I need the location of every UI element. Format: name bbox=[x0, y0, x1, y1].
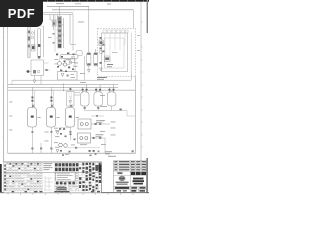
vessel inlet bbox=[26, 71, 31, 73]
package inner frame bbox=[102, 33, 128, 72]
label left bbox=[54, 141, 58, 144]
vessel side lines bbox=[44, 62, 49, 64]
header pipe 3 bbox=[8, 89, 136, 91]
bottom edge ticks bbox=[8, 193, 133, 194]
top link line bbox=[29, 25, 44, 27]
drop line mid bbox=[40, 143, 42, 153]
vessel V2 (tall narrow) bbox=[28, 25, 31, 58]
company row bbox=[114, 174, 147, 176]
frame right inner bbox=[140, 2, 142, 162]
logo bbox=[119, 176, 125, 181]
pipe drop bbox=[40, 75, 42, 84]
top edge notches bbox=[47, 0, 144, 1]
equipment table base bbox=[4, 162, 102, 193]
skid1 pump A bbox=[80, 123, 83, 126]
notes sketch bbox=[44, 176, 53, 190]
tank outlet 1 bbox=[31, 127, 33, 153]
table dark marks bbox=[4, 163, 39, 190]
tank feed drop 3 bbox=[69, 87, 71, 91]
pipe label 2 bbox=[75, 2, 81, 5]
pump P4 bbox=[64, 144, 68, 148]
cluster extra marks bbox=[56, 53, 75, 73]
frame label bbox=[9, 25, 14, 28]
vessel cap narrow bbox=[38, 29, 41, 59]
valve cluster bbox=[32, 45, 36, 52]
PDF badge bbox=[0, 0, 43, 27]
funnel in sump bbox=[61, 74, 64, 77]
sheet right edge (bottom segment) bbox=[146, 158, 148, 193]
header pipe 1 bbox=[8, 84, 118, 86]
lower row marks bbox=[115, 187, 130, 189]
package boundary (dashed) bbox=[98, 28, 136, 76]
tank vessel 3 bbox=[66, 108, 75, 128]
title block left border bbox=[113, 160, 115, 192]
drum D1 bbox=[76, 51, 82, 56]
company row dark cells bbox=[131, 172, 146, 175]
frame right ticks bbox=[141, 22, 142, 147]
pipe drop B bbox=[132, 10, 134, 29]
package side labels bbox=[137, 34, 140, 37]
bottom strip top border bbox=[4, 161, 102, 163]
tick above frame bbox=[107, 3, 111, 6]
instrument bubble bbox=[31, 36, 34, 39]
pump skid 1 box bbox=[78, 119, 91, 129]
skid2 pump B bbox=[85, 137, 88, 140]
tank feed drop 1 bbox=[31, 87, 33, 107]
hx drum H1 bbox=[60, 55, 78, 59]
funnel in F1 bbox=[69, 101, 72, 104]
company text lines bbox=[116, 182, 129, 185]
legend box (white overlay) bbox=[56, 172, 75, 181]
title block lower lines bbox=[114, 185, 147, 187]
tank vessel 1 bbox=[28, 108, 37, 128]
package inner right line bbox=[130, 33, 132, 72]
pipe header B bbox=[52, 9, 133, 11]
revision row marks bbox=[114, 161, 146, 170]
F1 side pipes bbox=[74, 92, 80, 94]
pipe header A bbox=[47, 5, 89, 7]
column side pipe bbox=[63, 18, 65, 48]
package right riser bbox=[134, 76, 136, 153]
pot nozzles bbox=[83, 85, 114, 93]
tank outlet 2 bbox=[50, 127, 52, 153]
bottom header pipe bbox=[8, 152, 136, 154]
funnel B bbox=[56, 150, 59, 153]
pump skid 2 box bbox=[78, 133, 91, 143]
cluster piping bbox=[60, 56, 85, 80]
pipe bbox=[43, 26, 45, 57]
package nested frame bbox=[105, 38, 125, 68]
sump marks bbox=[67, 75, 69, 77]
dark cell block right bbox=[99, 165, 102, 172]
sump box bbox=[58, 72, 78, 81]
skid2 outlet bbox=[91, 138, 106, 153]
pot header to riser bbox=[123, 111, 135, 117]
column side nozzles bbox=[57, 22, 64, 38]
outlet valve marks bbox=[31, 148, 33, 150]
internal drop lines bbox=[105, 33, 125, 55]
tank outlet 3 bbox=[69, 127, 71, 140]
equipment table grid bbox=[4, 162, 102, 193]
drawing title text bbox=[133, 178, 144, 180]
tank vessel 2 bbox=[47, 108, 56, 128]
cluster B line bbox=[68, 147, 101, 149]
drain funnel bbox=[33, 80, 36, 83]
internal unit boxes bbox=[99, 40, 103, 46]
mid top band dark cells bbox=[55, 163, 78, 184]
package left marks bbox=[100, 37, 105, 64]
table bottom dash band bbox=[12, 191, 100, 192]
outlet valve marks bbox=[120, 109, 122, 111]
column T1 bbox=[58, 17, 62, 49]
nozzle bbox=[88, 49, 90, 53]
pot vessel 2 bbox=[94, 92, 103, 106]
valve block bbox=[52, 21, 56, 26]
pipe riser to column bbox=[59, 6, 61, 16]
package label bbox=[97, 77, 107, 78]
title divider bbox=[129, 171, 131, 193]
valve X 3 bbox=[70, 105, 72, 107]
internal text bbox=[107, 64, 113, 65]
internal funnel bbox=[100, 68, 103, 71]
table text rows bbox=[7, 163, 79, 189]
left margin tags bbox=[9, 101, 12, 104]
skid1 outlet bbox=[91, 123, 110, 125]
cluster A line bbox=[59, 127, 70, 129]
pump P3 bbox=[59, 143, 63, 147]
frame bottom bbox=[0, 192, 149, 194]
header pipe 2 bbox=[8, 86, 118, 88]
mid labels bbox=[80, 72, 85, 75]
outlet down link bbox=[11, 80, 13, 84]
sheet right edge (top segment) bbox=[147, 0, 148, 33]
table dark edge column bbox=[0, 164, 2, 192]
filter box F1 bbox=[67, 92, 75, 107]
pot nozzle valves bbox=[82, 89, 115, 91]
pipe bbox=[88, 66, 90, 70]
right margin labels bbox=[100, 94, 105, 97]
small fittings bbox=[53, 33, 55, 35]
tank side labels bbox=[38, 116, 41, 119]
reboiler pipe 1 bbox=[70, 14, 76, 44]
flange ticks bbox=[63, 84, 65, 92]
skid2 labels bbox=[96, 133, 104, 136]
sheet top edge bbox=[0, 0, 149, 2]
title block right border bbox=[146, 160, 148, 192]
instrument bubble bbox=[31, 32, 34, 35]
pot labels bbox=[100, 105, 107, 108]
valve X 1 bbox=[32, 105, 34, 107]
tank feed drop 2 bbox=[50, 87, 52, 107]
pot outlets bbox=[85, 106, 112, 111]
valve cluster bottom bbox=[89, 150, 91, 152]
table right border bbox=[101, 162, 103, 193]
pipe drop A bbox=[88, 6, 90, 52]
extra cluster marks bbox=[60, 123, 101, 152]
vessel V3 bbox=[31, 60, 44, 75]
bottom row marks bbox=[117, 190, 122, 192]
pipe drops from wide pipe bbox=[50, 15, 61, 30]
frame left ticks bbox=[2, 37, 3, 137]
pipe bbox=[34, 30, 36, 50]
notes text bbox=[43, 163, 52, 170]
wide pipe bbox=[44, 13, 73, 15]
small labels right bbox=[105, 150, 112, 153]
nozzle cells row bbox=[103, 30, 128, 33]
scale bar block bbox=[57, 187, 67, 192]
cluster A marks bbox=[59, 128, 61, 130]
pipe label bbox=[56, 2, 64, 5]
outlet mid marks bbox=[31, 131, 33, 133]
pot outlet header bbox=[85, 110, 123, 112]
pump P1 bbox=[58, 62, 62, 66]
frame left inner bbox=[7, 2, 9, 154]
interconnect line bbox=[91, 115, 104, 117]
skid1 pump B bbox=[85, 123, 88, 126]
revision table rows bbox=[114, 160, 147, 171]
pump P2 bbox=[63, 63, 66, 66]
frame left outer bbox=[3, 2, 5, 193]
tower side pipe pair bbox=[54, 15, 56, 52]
funnel bbox=[87, 70, 90, 73]
exchanger E1 bbox=[87, 53, 91, 67]
riser valve bbox=[132, 150, 134, 152]
skid1 labels bbox=[96, 119, 104, 122]
pot vessel 1 bbox=[80, 92, 89, 106]
instrument bubble bbox=[69, 61, 72, 64]
nozzle bbox=[95, 49, 97, 53]
exchanger E2 bbox=[94, 53, 98, 67]
notes area (light zone) bbox=[43, 162, 55, 192]
skid2 pump A bbox=[80, 137, 83, 140]
valve X 2 bbox=[51, 105, 53, 107]
package outlet pipe bbox=[12, 72, 131, 81]
separator line bbox=[4, 171, 102, 173]
small box bbox=[70, 59, 75, 63]
reboiler pipe 2 bbox=[72, 14, 74, 50]
label text bbox=[66, 58, 71, 61]
pot vessel 3 bbox=[107, 92, 116, 106]
